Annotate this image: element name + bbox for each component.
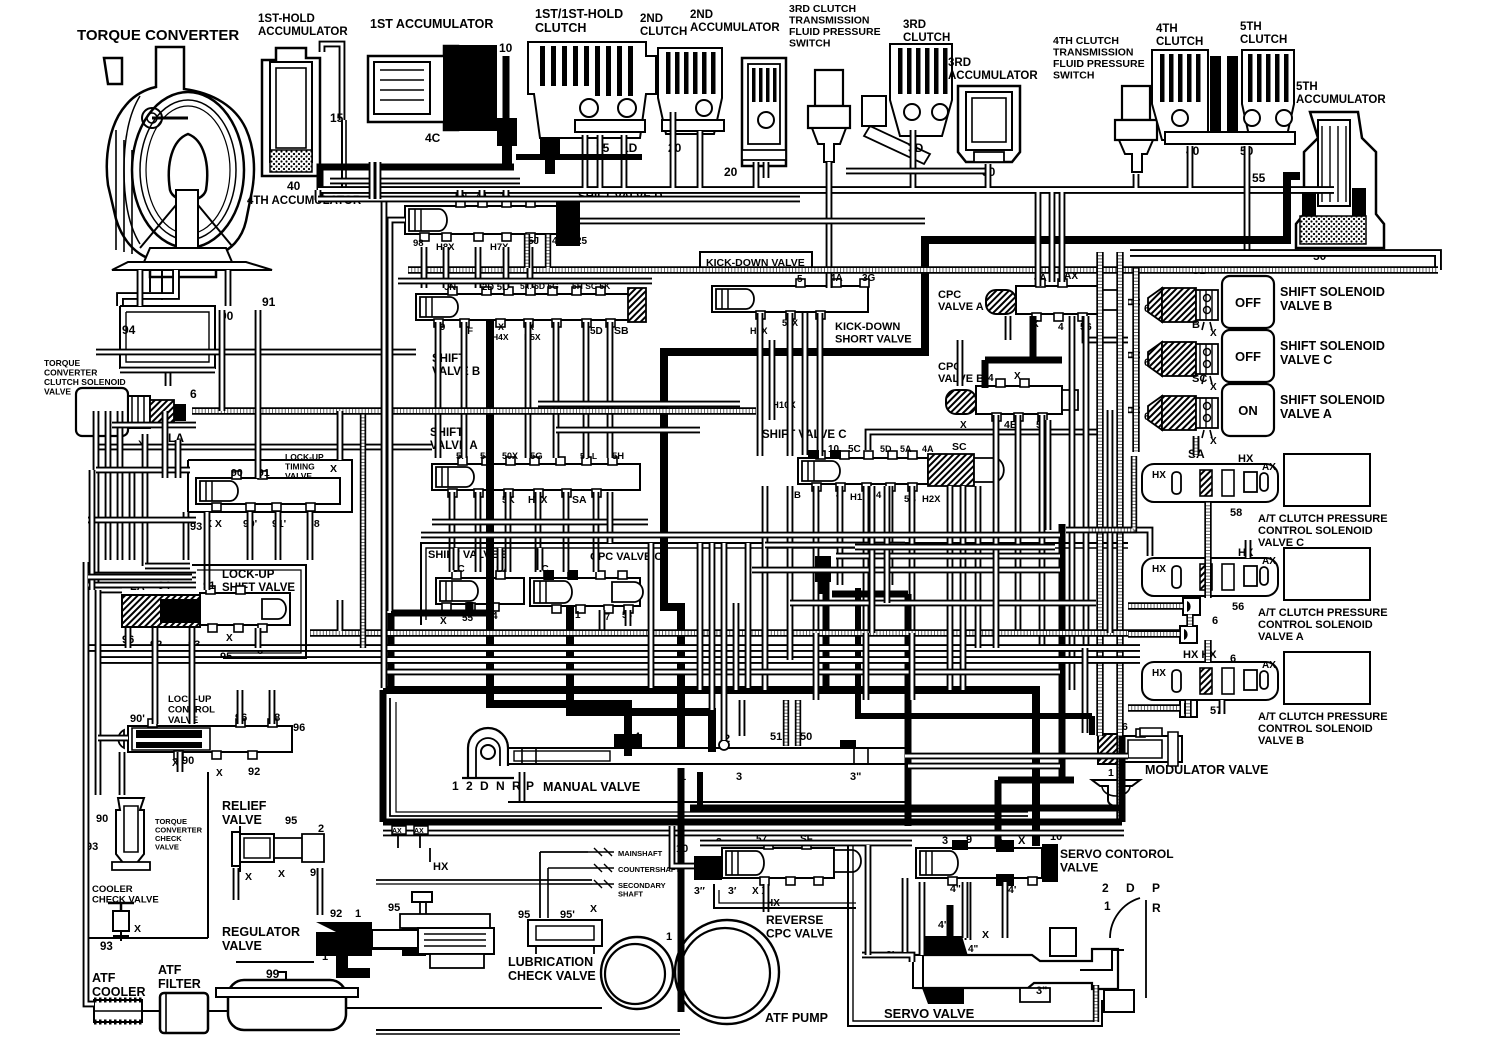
shift solenoid valve B (1144, 265, 1385, 339)
A/T clutch pressure control solenoid valve B label (1210, 705, 1388, 747)
svg-text:2ND: 2ND (640, 13, 663, 25)
svg-text:X: X (1210, 382, 1217, 393)
svg-text:1 2 D N R: 1 2 D N R (452, 779, 523, 793)
stubs AX AX HX (392, 826, 449, 873)
svg-text:5D: 5D (880, 444, 892, 454)
shift valve E (428, 549, 524, 627)
svg-text:3″: 3″ (694, 885, 705, 897)
extra top stubs (585, 131, 700, 188)
A/T clutch pressure control solenoid valve A assembly (1142, 556, 1278, 596)
svg-text:X: X (1210, 328, 1217, 339)
svg-text:6: 6 (190, 387, 197, 401)
ATF pump (601, 920, 828, 1025)
torque converter (77, 27, 272, 277)
label 93 bottom (100, 941, 113, 953)
hatch bus y633 (310, 629, 1180, 636)
svg-text:D: D (1126, 881, 1135, 895)
svg-text:FILTER: FILTER (158, 977, 201, 991)
manual valve port 2 (719, 690, 729, 750)
CPC valve B (938, 361, 1078, 431)
svg-text:VALVE: VALVE (155, 843, 179, 852)
lubrication check valve (508, 903, 602, 983)
label SA (1188, 447, 1254, 465)
svg-text:LOCK-UP: LOCK-UP (222, 569, 275, 581)
wire 90 down (219, 310, 226, 411)
bus y833 (383, 830, 1124, 837)
enclosure check valves (88, 772, 208, 938)
cooler check valve (92, 884, 159, 941)
svg-text:VALVE: VALVE (222, 939, 262, 953)
svg-text:X: X (982, 929, 989, 941)
wire 57 below row B (1219, 700, 1226, 714)
wires shift valve D top ports (460, 190, 506, 200)
wires top bus to CPC A (1038, 192, 1062, 286)
wire thick CPC C 1 (570, 606, 712, 752)
svg-text:58: 58 (1230, 507, 1242, 519)
wires lockup shift to control (128, 628, 258, 724)
wire strainer to pump (346, 1007, 602, 1009)
3rd accumulator (948, 57, 1038, 162)
svg-text:AX: AX (1262, 462, 1276, 473)
bus y843 (700, 840, 912, 847)
svg-text:6: 6 (1144, 411, 1150, 423)
svg-text:X: X (590, 903, 597, 915)
shift solenoid valve A (1144, 373, 1385, 447)
bus y660 (96, 656, 1140, 664)
extra vertical x1052 (1049, 192, 1056, 282)
svg-text:3G: 3G (862, 273, 876, 284)
svg-text:AX: AX (1262, 660, 1276, 671)
svg-text:6: 6 (1144, 357, 1150, 369)
label 4C (425, 131, 441, 145)
svg-text:5: 5 (797, 274, 803, 285)
thick y716 (855, 716, 1092, 735)
wire thick center (5F) (490, 320, 628, 756)
wire 4prime thick (950, 882, 968, 940)
wires valve E top ports (456, 548, 540, 570)
svg-text:4A: 4A (922, 444, 934, 454)
svg-text:A/T CLUTCH PRESSURE: A/T CLUTCH PRESSURE (1258, 711, 1388, 723)
wire H10X vertical (769, 340, 776, 420)
check ball 2 (1180, 626, 1197, 643)
svg-text:95: 95 (388, 902, 400, 914)
svg-text:X: X (498, 322, 504, 332)
svg-text:SERVO CONTOROL: SERVO CONTOROL (1060, 847, 1174, 861)
svg-text:93: 93 (100, 941, 113, 953)
wire 50 horizontal (1130, 253, 1438, 270)
wires kick-down bottom ports (760, 313, 820, 456)
svg-text:VALVE C: VALVE C (1280, 353, 1332, 367)
svg-text:VALVE: VALVE (1060, 861, 1098, 875)
manual valve thin frame (390, 698, 1028, 816)
svg-text:HX: HX (1152, 668, 1166, 679)
extra left mid verticals (108, 411, 186, 560)
lockup shift valve enclosure (192, 565, 306, 658)
svg-text:51: 51 (770, 731, 782, 743)
svg-text:ON: ON (1238, 403, 1258, 418)
wire 15 from 1st-hold accumulator (342, 120, 346, 190)
svg-text:FLUID PRESSURE: FLUID PRESSURE (789, 26, 881, 38)
svg-text:SWITCH: SWITCH (789, 38, 830, 50)
svg-text:VALVE A: VALVE A (938, 301, 984, 313)
svg-text:3: 3 (942, 835, 948, 847)
svg-text:50X: 50X (502, 451, 518, 461)
hatch column x1100 (1096, 252, 1103, 736)
wire 91 down (255, 310, 262, 478)
svg-text:SC: SC (952, 441, 967, 453)
torque converter clutch solenoid valve (44, 358, 197, 451)
left band y575 (88, 577, 340, 631)
3rd clutch (862, 19, 952, 164)
wire left x96 (93, 411, 100, 590)
svg-text:SHORT VALVE: SHORT VALVE (835, 334, 912, 346)
svg-text:CONTROL SOLENOID: CONTROL SOLENOID (1258, 723, 1373, 735)
svg-text:95': 95' (560, 909, 575, 921)
svg-text:CONVERTER: CONVERTER (44, 368, 97, 378)
wire 3rd pressure switch down (826, 162, 833, 288)
svg-text:90: 90 (231, 467, 243, 479)
wire 50 vertical (5th clutch) (1244, 146, 1251, 252)
lock-up shift valve (122, 569, 295, 663)
svg-text:H2X: H2X (922, 494, 941, 505)
1st accumulator (368, 17, 513, 130)
wires shift valve C top stubs (868, 432, 1098, 450)
label 6 and HX HX (1183, 615, 1236, 665)
svg-text:6: 6 (1144, 303, 1150, 315)
left margin vertical x384 (381, 200, 388, 688)
svg-text:3": 3" (1036, 985, 1047, 997)
check ball 3 (1180, 700, 1197, 717)
svg-text:90: 90 (182, 755, 194, 767)
column x1072 (1069, 316, 1076, 690)
ATF cooler (92, 971, 145, 1022)
tc extra wire (137, 270, 144, 306)
svg-text:3′: 3′ (728, 885, 737, 897)
reverse CPC valve (676, 834, 861, 941)
wire 3prime (862, 955, 912, 962)
wires valve A bottom verticals (452, 492, 596, 572)
wire thick SVE 55 (391, 602, 486, 692)
black fitting mid (815, 556, 831, 594)
left enclosure x98 (98, 590, 128, 795)
svg-text:TRANSMISSION: TRANSMISSION (1053, 47, 1134, 59)
wire left margin to valve A (96, 444, 432, 451)
svg-text:4: 4 (1058, 322, 1064, 333)
svg-text:X: X (1210, 436, 1217, 447)
svg-text:25: 25 (576, 236, 588, 247)
servo enclosure (848, 845, 1102, 1026)
svg-text:90': 90' (130, 713, 145, 725)
A/T clutch pressure control solenoid valve B box (1284, 652, 1370, 704)
svg-text:VALVE: VALVE (44, 387, 71, 397)
wire 55 50 (thick) (664, 176, 1300, 748)
svg-text:96: 96 (293, 722, 305, 734)
A/T clutch pressure control solenoid valve A label (1232, 601, 1388, 643)
svg-text:95: 95 (518, 909, 530, 921)
y535 rail (421, 532, 1060, 539)
svg-text:ACCUMULATOR: ACCUMULATOR (258, 26, 348, 38)
column x1086 (1083, 316, 1090, 648)
hatch vertical x363 (360, 414, 366, 648)
svg-text:CLUTCH SOLENOID: CLUTCH SOLENOID (44, 377, 126, 387)
lock-up control valve (118, 694, 305, 779)
wire MV below (508, 772, 908, 802)
svg-text:CLUTCH: CLUTCH (640, 26, 687, 38)
hatch ball feeds (1128, 606, 1183, 708)
node 94 box (120, 306, 215, 368)
extra left horizontals (88, 470, 196, 590)
extra kickdown port (802, 313, 809, 455)
shift solenoid valve C (1144, 319, 1385, 393)
hatch row A feed (1190, 614, 1208, 662)
svd hatch drops (527, 234, 548, 268)
extend SVC ports to frame (816, 633, 912, 700)
tile11 extra (765, 415, 996, 648)
wire TC right down (225, 270, 232, 306)
svg-text:CPC VALVE: CPC VALVE (766, 927, 833, 941)
right of manual valve chans (905, 756, 1128, 766)
svg-text:40: 40 (287, 179, 301, 193)
center extra v (651, 543, 748, 688)
wire 20 vertical (2nd clutch) (670, 112, 677, 188)
svg-text:MAINSHAFT: MAINSHAFT (618, 849, 663, 858)
wire 10 (thick) from 1st accumulator (503, 56, 510, 120)
hatch column x1120 (1116, 252, 1123, 822)
wire 56 stub (1085, 316, 1128, 340)
svg-text:1: 1 (666, 931, 672, 943)
thick bus y822 (383, 736, 1122, 822)
mainshaft labels (588, 848, 680, 899)
svg-text:R: R (1152, 901, 1161, 915)
wire CPC A out thick (985, 316, 1062, 388)
extra y522 horizontal (432, 519, 648, 526)
svg-text:REVERSE: REVERSE (766, 913, 823, 927)
svg-text:1: 1 (1108, 767, 1114, 779)
svg-text:MANUAL VALVE: MANUAL VALVE (543, 780, 640, 794)
svc black tabs (808, 450, 841, 459)
svg-text:RELIEF: RELIEF (222, 799, 267, 813)
svg-text:AX: AX (414, 828, 424, 835)
svg-text:X: X (216, 768, 223, 779)
wire 4th pressure switch stem (1133, 174, 1140, 188)
thick vert x383 (380, 690, 387, 822)
wire timing valve feeds (207, 512, 310, 590)
wires CPC C bottom (602, 610, 628, 633)
thick y808 (690, 805, 1122, 812)
modulator valve (1092, 721, 1268, 806)
wires shift valve D bottom ports (424, 247, 530, 288)
control valve top feeds (240, 690, 272, 724)
svg-text:MODULATOR VALVE: MODULATOR VALVE (1145, 763, 1268, 777)
servo extra wires (922, 882, 965, 955)
svg-text:6: 6 (1212, 615, 1218, 627)
svg-text:AX: AX (1262, 556, 1276, 567)
svg-text:4: 4 (988, 373, 994, 384)
vertical x390 (387, 270, 394, 611)
check ball 1 (1183, 598, 1200, 615)
wire SA (1193, 436, 1200, 454)
solenoid hatch column (1132, 268, 1139, 452)
svg-text:SERVO VALVE: SERVO VALVE (884, 1006, 975, 1021)
wire 20 vertical (2nd accumulator) (756, 162, 766, 188)
2nd accumulator (690, 9, 786, 166)
svg-text:TORQUE: TORQUE (44, 358, 81, 368)
wires cross horizontals mid (538, 404, 740, 430)
valve E enclosure box (421, 543, 1128, 625)
rail y281 (398, 278, 652, 285)
svg-text:ACCUMULATOR: ACCUMULATOR (948, 70, 1038, 82)
servo control valve (916, 831, 1174, 896)
servo right hatch (1093, 985, 1099, 1022)
svg-text:92: 92 (248, 766, 260, 778)
hatched elbow SA (1088, 438, 1196, 530)
second top rail (318, 181, 800, 199)
svg-text:4C: 4C (425, 131, 441, 145)
svg-text:5D: 5D (590, 326, 603, 337)
bus y528 (1066, 530, 1150, 556)
svg-text:SA: SA (572, 494, 587, 506)
svg-text:VALVE B: VALVE B (1258, 735, 1304, 747)
wire box94 to solenoid (165, 368, 172, 386)
label HX row2 (1238, 547, 1254, 559)
1st-hold accumulator (258, 13, 348, 176)
svg-text:X: X (1014, 371, 1021, 382)
A/T clutch pressure control solenoid valve B assembly (1142, 660, 1278, 700)
svg-text:3RD: 3RD (903, 19, 926, 31)
svg-text:TIMING: TIMING (285, 462, 315, 472)
svg-text:SWITCH: SWITCH (1053, 70, 1094, 82)
svg-text:SHIFT VALVE E: SHIFT VALVE E (428, 549, 508, 561)
label 40 / 4th accumulator (247, 179, 362, 207)
svg-text:1ST ACCUMULATOR: 1ST ACCUMULATOR (370, 17, 493, 31)
svg-text:1ST/1ST-HOLD: 1ST/1ST-HOLD (535, 7, 623, 21)
wire top bus stub left (315, 190, 322, 200)
extra right of CPCC verticals (700, 543, 736, 710)
wire cooler-filter-strainer (86, 940, 228, 1011)
svg-text:4TH: 4TH (1156, 23, 1178, 35)
wire main top bus (318, 186, 1334, 194)
svg-text:4TH CLUTCH: 4TH CLUTCH (1053, 35, 1119, 47)
wires valve B to valve A verticals (438, 322, 610, 458)
wire x868 vertical (865, 845, 872, 955)
svg-text:COOLER: COOLER (92, 884, 133, 895)
svg-text:5C: 5C (848, 444, 861, 455)
svg-text:B: B (794, 490, 801, 501)
svg-text:1: 1 (1104, 899, 1111, 913)
hatch row B feed (1184, 700, 1191, 717)
svg-text:TORQUE CONVERTER: TORQUE CONVERTER (77, 27, 239, 44)
svg-text:SB: SB (614, 325, 629, 337)
svg-text:OFF: OFF (1235, 349, 1261, 364)
labels 30 (908, 141, 996, 179)
labels 40 50 55 (1186, 144, 1266, 185)
5th accumulator (1296, 81, 1386, 248)
shift valve A (430, 427, 640, 506)
svg-text:CONTROL SOLENOID: CONTROL SOLENOID (1258, 525, 1373, 537)
extra right-mid web (960, 316, 1110, 633)
thick x908 (832, 588, 908, 826)
extra central verticals (765, 486, 978, 690)
svg-text:ACCUMULATOR: ACCUMULATOR (1296, 94, 1386, 106)
ATF filter (158, 963, 208, 1033)
svg-text:ATF: ATF (92, 971, 116, 985)
reverse cpc enclosure (714, 884, 856, 908)
wire torque converter outputs (120, 270, 176, 306)
wire 51 50 verticals (786, 700, 798, 746)
wire 15 1D verticals (600, 135, 624, 188)
svg-text:4A: 4A (552, 236, 565, 247)
shift valve B (416, 281, 646, 378)
svg-text:REGULATOR: REGULATOR (222, 925, 300, 939)
svg-text:VALVE A: VALVE A (1258, 631, 1304, 643)
lock-up timing valve (188, 452, 352, 530)
svg-text:4: 4 (876, 490, 882, 501)
svg-text:X: X (278, 868, 285, 880)
svg-text:HX HX: HX HX (1183, 649, 1217, 661)
svg-text:VALVE A: VALVE A (1280, 407, 1332, 421)
clutch collector thick (516, 154, 642, 160)
svg-text:SHAFT: SHAFT (618, 890, 643, 899)
svg-text:P: P (526, 779, 534, 793)
svg-text:FLUID PRESSURE: FLUID PRESSURE (1053, 58, 1145, 70)
relief valve (222, 799, 324, 883)
svd right line (580, 218, 925, 225)
svg-text:10: 10 (499, 41, 513, 55)
4th/5th clutch hub (black) (1210, 56, 1238, 138)
label 93 (86, 521, 202, 760)
wire left margin to valve B (96, 349, 416, 356)
bus y648 (86, 644, 1140, 652)
wire 3D vertical (846, 130, 985, 188)
svg-text:CLUTCH: CLUTCH (903, 32, 950, 44)
svg-text:2: 2 (1102, 881, 1109, 895)
svg-text:ATF: ATF (158, 963, 182, 977)
shift valve D (405, 191, 663, 253)
servo valve (884, 881, 1161, 1021)
A/T clutch pressure control solenoid valve A box (1284, 548, 1370, 600)
svg-text:HX: HX (1152, 564, 1166, 575)
svg-text:SC: SC (1192, 373, 1207, 385)
wire shift valve D left (390, 220, 405, 270)
svg-text:50: 50 (800, 731, 812, 743)
svg-text:1ST-HOLD: 1ST-HOLD (258, 13, 315, 25)
wire CPC B 4B down (1015, 415, 1022, 633)
svg-text:55: 55 (1252, 171, 1266, 185)
svg-text:VALVE: VALVE (222, 813, 262, 827)
svg-text:OFF: OFF (1235, 295, 1261, 310)
svg-text:X: X (440, 616, 447, 627)
svg-text:SHIFT SOLENOID: SHIFT SOLENOID (1280, 339, 1385, 353)
svg-text:CLUTCH: CLUTCH (535, 21, 586, 35)
svg-text:5A: 5A (900, 444, 912, 454)
shift valve C (762, 429, 1004, 505)
wire 30 from 3rd accumulator (985, 164, 992, 188)
label H10X (772, 400, 796, 411)
svg-text:2ND: 2ND (690, 9, 713, 21)
reverse cpc left wire (672, 826, 694, 866)
modulator 1 wire (1082, 648, 1089, 733)
svg-text:ATF PUMP: ATF PUMP (765, 1011, 828, 1025)
wire hatch bus y270 (408, 266, 1438, 273)
solenoid feed elbows (1128, 302, 1140, 410)
wires shift valve C bottom ports (816, 486, 912, 633)
svg-text:HX: HX (433, 861, 449, 873)
kick-down short valve label (835, 321, 912, 346)
wire y566 horizontal (145, 563, 190, 570)
wire 40 vertical (4th clutch) (1187, 146, 1194, 188)
wire MV 3 up (739, 700, 746, 736)
wire relief to regulator (236, 868, 320, 915)
